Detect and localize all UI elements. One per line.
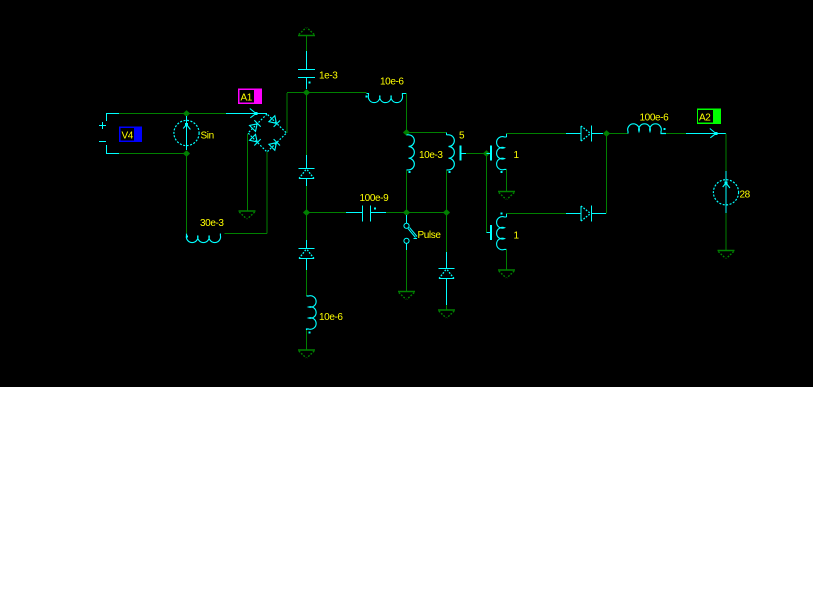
svg-text:30e-3: 30e-3 — [200, 218, 224, 229]
diode bridge lower-right — [269, 139, 280, 150]
svg-text:10e-6: 10e-6 — [380, 77, 404, 88]
diode snubber 1 — [299, 155, 315, 186]
ground below secondary 2 — [498, 270, 515, 278]
transformer secondary 2 core bar — [487, 225, 493, 240]
wire secondary 2 top rail to diode — [507, 213, 567, 215]
wire output junction to inductor 100e-6 — [607, 133, 629, 135]
node junction below capacitor 1e-3 — [303, 89, 310, 95]
diode clamp — [439, 252, 455, 305]
ammeter A2 arrow — [686, 129, 726, 138]
svg-text:Sin: Sin — [201, 131, 214, 142]
svg-text:28: 28 — [740, 190, 751, 201]
wire inductor 10e-6 vertical to ground — [306, 330, 308, 350]
svg-text:1: 1 — [514, 231, 520, 242]
svg-text:V4: V4 — [122, 131, 134, 142]
wire inductor 10e-6 down to transformer junction — [406, 94, 408, 133]
wire 1e-3 junction down to diode snubber 1 — [306, 93, 308, 156]
wire bridge riser to cap junction — [287, 92, 306, 94]
svg-text:A2: A2 — [699, 113, 711, 124]
capacitor 100e-9 — [346, 206, 386, 222]
svg-text:10e-6: 10e-6 — [319, 312, 343, 323]
label box A1 — [238, 89, 262, 105]
wire from 30e-3 to bridge bottom riser — [224, 233, 267, 235]
wire primary return down to clamp diode — [446, 213, 448, 253]
wire secondary 1 bottom to ground — [506, 170, 508, 192]
ground below bridge — [239, 211, 256, 219]
diode snubber 2 — [299, 240, 315, 270]
wire switch down to ground — [406, 250, 408, 291]
ground below load source — [718, 251, 735, 259]
wire from 1e-3 junction to inductor 10e-6 — [307, 92, 367, 94]
wire mid rail to primary return junction — [407, 212, 447, 214]
diode rectifier top — [566, 126, 603, 142]
wire primary top rail — [407, 132, 447, 134]
label box A2 — [697, 109, 721, 125]
voltage source V4 terminal bracket — [99, 114, 119, 154]
inductor 10e-3 magnetizing — [407, 135, 415, 173]
diode bridge lower-left — [249, 134, 260, 145]
node junction primary return — [443, 209, 450, 215]
node junction primary top — [403, 129, 410, 135]
transformer primary winding — [447, 133, 455, 174]
wire core junction down to secondary 2 core — [486, 154, 488, 233]
wire secondary 1 top rail to diode — [507, 133, 567, 135]
canvas background — [0, 0, 813, 387]
wire snubber diode 2 to inductor 10e-6 vertical — [306, 270, 308, 296]
wire primary bottom down to mid rail — [446, 171, 448, 213]
wire from bottom junction down to inductor 30e-3 — [186, 154, 188, 234]
svg-text:Pulse: Pulse — [418, 230, 442, 241]
wire riser to bridge bottom vertex — [266, 152, 268, 234]
inductor 30e-3 — [186, 234, 221, 243]
transformer secondary 1 winding — [497, 134, 507, 174]
transformer secondary 2 winding — [497, 213, 507, 250]
wire A2 corner down to load source — [725, 134, 727, 181]
wire bottom rectifier up to output junction — [606, 134, 608, 214]
switch Pulse — [404, 215, 417, 250]
current source load 28 — [713, 171, 738, 213]
wire 10e-3 down to mid rail — [406, 171, 408, 213]
svg-text:100e-6: 100e-6 — [640, 113, 670, 124]
sine voltage source Sin — [174, 116, 199, 150]
capacitor 1e-3 — [298, 51, 315, 89]
wire secondary 2 bottom to ground — [506, 250, 508, 271]
node junction switch top — [403, 209, 410, 215]
wire bridge right vertex up — [286, 93, 288, 133]
node junction top of Sin source — [183, 110, 190, 116]
diode bridge upper-left — [249, 120, 260, 131]
wire inductor 100e-6 to A2 arrow — [666, 133, 686, 135]
ground below switch — [398, 292, 415, 300]
svg-text:100e-9: 100e-9 — [360, 193, 390, 204]
node junction left chain mid rail — [303, 209, 310, 215]
wire mid rail to capacitor 100e-9 — [307, 212, 347, 214]
wire bridge left vertex down to ground — [247, 134, 249, 212]
wire mid junction down to diode snubber 2 — [306, 213, 308, 241]
node junction bottom of Sin source — [183, 150, 190, 156]
node junction rectifier output — [603, 130, 610, 136]
wire bottom rail from V4 to Sin source — [119, 153, 186, 155]
inductor 100e-6 — [628, 124, 666, 134]
inductor 10e-6 input filter — [366, 94, 407, 103]
transformer secondary 1 core bar — [487, 146, 493, 161]
wire capacitor 100e-9 to switch junction — [386, 212, 407, 214]
wire snubber diode 1 to mid junction — [306, 186, 308, 213]
ammeter A1 arrow — [226, 109, 267, 118]
ground below clamp diode — [438, 310, 455, 318]
svg-text:1e-3: 1e-3 — [319, 71, 338, 82]
wire load source down to ground — [725, 213, 727, 250]
svg-text:1: 1 — [514, 150, 520, 161]
power ground above capacitor 1e-3 (points up) — [298, 28, 315, 36]
ground below inductor 10e-6 — [298, 350, 315, 358]
label box V4 — [119, 127, 142, 143]
wire bridge diamond dashed sides — [248, 114, 287, 152]
node junction transformer core — [483, 150, 490, 156]
wire capacitor 1e-3 up to supply rail ground — [306, 36, 308, 51]
diode rectifier bottom — [566, 206, 606, 222]
svg-text:A1: A1 — [241, 93, 253, 104]
diode bridge upper-right — [269, 116, 280, 127]
inductor 10e-6 vertical — [307, 296, 317, 334]
wire top rail from V4 to Sin source — [119, 113, 226, 115]
svg-text:10e-3: 10e-3 — [419, 150, 443, 161]
ground below secondary 1 — [498, 192, 515, 200]
wire clamp diode to ground — [446, 305, 448, 310]
wire core bar to core junction — [466, 153, 487, 155]
wire from Sin junction toward A1 arrow — [187, 113, 227, 115]
transformer primary core bar — [460, 146, 467, 161]
svg-text:5: 5 — [459, 131, 465, 142]
